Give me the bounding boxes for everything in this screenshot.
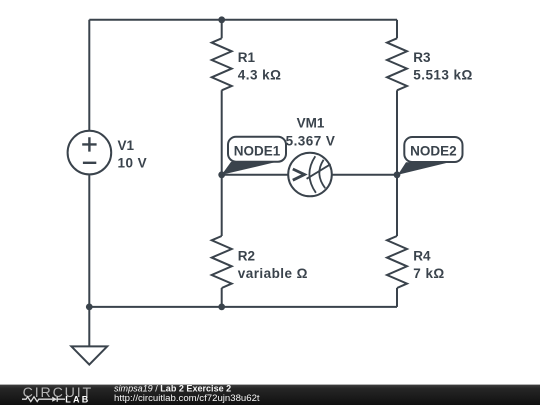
svg-text:10 V: 10 V (118, 156, 148, 171)
footer bar (0, 385, 540, 405)
svg-text:VM1: VM1 (297, 116, 325, 131)
svg-text:R2: R2 (238, 248, 255, 263)
svg-text:4.3 kΩ: 4.3 kΩ (238, 67, 282, 82)
resistor R3 (387, 38, 407, 90)
wire left column lower (88, 174, 90, 346)
wire voltmeter right (332, 174, 397, 176)
wire top horizontal (89, 19, 397, 21)
svg-text:R1: R1 (238, 50, 256, 65)
svg-text:V1: V1 (118, 138, 135, 153)
voltmeter VM1 (288, 153, 332, 197)
wire middle column mid (221, 90, 223, 175)
node B NODE2 flag (398, 137, 463, 175)
node junction top (218, 16, 225, 23)
svg-text:variable Ω: variable Ω (238, 266, 308, 281)
svg-text:5.513 kΩ: 5.513 kΩ (413, 67, 472, 82)
svg-text:http://circuitlab.com/cf72ujn3: http://circuitlab.com/cf72ujn38u62t (114, 393, 260, 404)
svg-text:LAB: LAB (65, 394, 90, 404)
node junction bottom middle (218, 304, 225, 311)
node A NODE1 flag (222, 137, 286, 175)
ground (71, 346, 107, 364)
resistor R4 (387, 236, 407, 288)
wire voltmeter left (222, 174, 289, 176)
wire middle column top (221, 20, 223, 39)
svg-text:NODE1: NODE1 (234, 144, 281, 159)
wire right column mid (396, 90, 398, 175)
voltage source V1 (68, 131, 112, 175)
logo resistor squiggle and diode (22, 397, 65, 402)
wire right column top (396, 20, 398, 39)
resistor R2 (212, 236, 232, 288)
node junction NODE1 (218, 171, 225, 178)
svg-text:5.367 V: 5.367 V (286, 134, 336, 149)
wire middle column NODE1 to R2 (221, 175, 223, 236)
svg-text:simpsa19 / Lab 2 Exercise 2: simpsa19 / Lab 2 Exercise 2 (114, 383, 231, 393)
wire middle column bottom (221, 288, 223, 307)
wire left column upper (88, 20, 90, 131)
wire right column bottom (396, 288, 398, 307)
svg-text:R4: R4 (413, 248, 431, 263)
svg-text:R3: R3 (413, 50, 431, 65)
wire bottom horizontal (89, 306, 397, 308)
resistor R1 (212, 38, 232, 90)
svg-text:NODE2: NODE2 (410, 144, 457, 159)
svg-text:7 kΩ: 7 kΩ (413, 266, 444, 281)
node junction NODE2 (394, 171, 401, 178)
wire right column NODE2 to R4 (396, 175, 398, 236)
node junction bottom left (86, 304, 93, 311)
